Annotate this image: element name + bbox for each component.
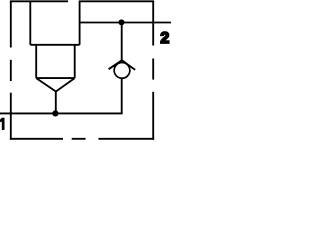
enclosure dashed border: bottom dash 1 [10, 138, 63, 140]
enclosure dashed border: bottom dash 2 [72, 138, 86, 140]
filler/breather funnel: neck right edge [74, 45, 76, 78]
wire: check valve upper vertical [121, 23, 123, 61]
enclosure dashed border: left dash 1 [10, 1, 12, 47]
filler/breather body: upper box right edge [79, 1, 81, 45]
wire: port 1 horizontal line [0, 112, 123, 114]
enclosure dashed border: top dash 2 [79, 0, 154, 2]
check valve V1: seat [109, 60, 136, 70]
wire: check valve lower vertical [121, 78, 123, 113]
filler/breather body: upper box bottom edge [30, 44, 79, 46]
enclosure dashed border: left dash 3 (to bottom corner) [10, 93, 12, 140]
wire: funnel stem down to port 1 line [55, 92, 57, 114]
enclosure dashed border: right dash 1 [152, 1, 154, 45]
node: junction dot on port 1 line [52, 110, 58, 116]
enclosure dashed border: bottom dash 3 [98, 138, 154, 140]
enclosure dashed border: left dash 2 [10, 60, 12, 81]
check valve V1: ball [114, 63, 130, 79]
label: port 1 [0, 118, 5, 130]
filler/breather funnel: V cone [36, 78, 74, 91]
enclosure dashed border: right dash 2 [152, 59, 154, 80]
enclosure dashed border: right dash 3 (to bottom corner) [152, 92, 154, 140]
filler/breather body: upper box left edge [29, 1, 31, 45]
svg-text:2: 2 [160, 30, 169, 47]
node: junction dot on port 2 line [118, 19, 124, 25]
enclosure dashed border: top dash 1 [10, 0, 68, 2]
filler/breather funnel: neck left edge [35, 45, 37, 78]
wire: port 2 horizontal line [80, 22, 171, 24]
filler/breather funnel: neck bottom edge [36, 77, 74, 79]
